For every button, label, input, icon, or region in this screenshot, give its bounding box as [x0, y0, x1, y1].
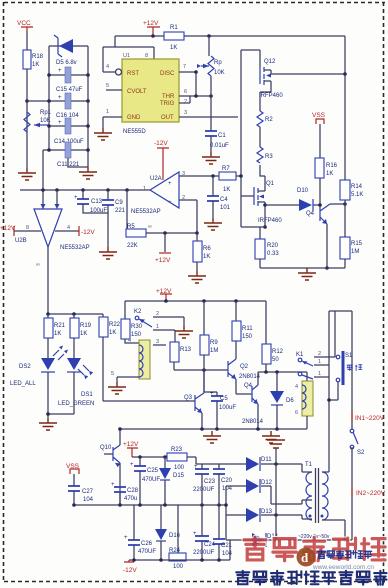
ground K2 coil: [108, 382, 126, 394]
capacitor C21 104: [213, 505, 233, 560]
diode D16: [155, 505, 181, 560]
resistor R2: [257, 111, 273, 127]
svg-text:-12V: -12V: [123, 567, 137, 574]
watermark red training text: [244, 537, 385, 560]
svg-text:10K: 10K: [214, 70, 225, 76]
switch S1 reset: [327, 351, 362, 402]
svg-text:1K: 1K: [326, 171, 333, 177]
wire ground rail right: [260, 267, 345, 269]
resistor R15 1M: [340, 237, 363, 268]
svg-text:IN2~220V: IN2~220V: [356, 490, 386, 497]
svg-text:5: 5: [111, 371, 114, 377]
svg-text:C26: C26: [141, 541, 153, 547]
junction: [25, 99, 29, 103]
capacitor C24 2200UF: [193, 505, 216, 560]
wire main left rail: [26, 69, 28, 168]
svg-text:Rp: Rp: [214, 60, 222, 66]
svg-text:IRFP460: IRFP460: [258, 218, 282, 224]
U2B input arrows: [41, 204, 60, 209]
capacitor C27 104: [68, 486, 94, 505]
svg-text:R24: R24: [169, 548, 181, 554]
svg-text:100: 100: [173, 564, 184, 570]
svg-text:1K: 1K: [203, 254, 210, 260]
power +12V top: [143, 20, 160, 36]
svg-text:C24: C24: [204, 542, 216, 548]
svg-text:Q4: Q4: [306, 211, 315, 217]
svg-text:1K: 1K: [80, 331, 87, 337]
pin THR: [179, 89, 211, 96]
svg-text:0.01uF: 0.01uF: [210, 143, 229, 149]
svg-text:-12V: -12V: [154, 140, 168, 147]
ground C1: [202, 152, 220, 164]
junction: [343, 72, 347, 76]
svg-text:C27: C27: [82, 489, 94, 495]
svg-text:D15: D15: [173, 473, 185, 479]
wire U2A pin2: [179, 200, 197, 233]
junction: [200, 427, 204, 431]
svg-text:+: +: [124, 535, 128, 541]
svg-text:+12V: +12V: [155, 257, 171, 264]
junction: [47, 73, 51, 77]
wire R3 to Q1 drain: [260, 165, 265, 191]
ground right rail: [298, 268, 316, 280]
svg-text:R13: R13: [180, 347, 192, 353]
svg-text:470u: 470u: [124, 496, 137, 502]
svg-text:+12V: +12V: [143, 20, 159, 27]
resistor R22 1K: [99, 314, 121, 401]
junction: [138, 455, 142, 459]
pin GND: [103, 109, 122, 128]
watermark slogan: [236, 571, 386, 585]
resistor R14 5.1K: [340, 180, 363, 237]
svg-text:1K: 1K: [109, 330, 116, 336]
svg-text:R20: R20: [267, 243, 279, 249]
svg-text:OUT: OUT: [161, 115, 174, 121]
transistor Q12 IRFP460 mosfet: [259, 59, 283, 111]
svg-text:VCC: VCC: [17, 20, 31, 27]
svg-text:DS1: DS1: [81, 392, 93, 398]
transistor Q3 2N8014: [184, 370, 204, 429]
junction: [274, 513, 278, 517]
junction: [164, 299, 168, 303]
wire C11 bottom: [68, 158, 88, 167]
svg-text:TRIG: TRIG: [160, 101, 175, 107]
ground LEDs: [39, 418, 57, 430]
svg-text:7: 7: [183, 64, 186, 70]
svg-text:470UF: 470UF: [142, 477, 160, 483]
svg-text:R6: R6: [203, 246, 211, 252]
power +12V mid: [155, 233, 171, 264]
svg-text:4: 4: [67, 225, 70, 231]
resistor R21 1K: [44, 314, 66, 358]
svg-text:S1: S1: [345, 353, 353, 359]
svg-text:∞: ∞: [36, 262, 40, 268]
svg-text:1: 1: [318, 371, 321, 377]
transistor Q4: [306, 204, 345, 268]
svg-text:+: +: [111, 482, 115, 488]
svg-text:d: d: [301, 550, 309, 565]
resistor R20 0.33: [255, 239, 279, 268]
svg-text:R21: R21: [54, 323, 66, 329]
svg-text:D10: D10: [297, 188, 309, 194]
capacitor C15 47uF: [56, 67, 83, 93]
svg-text:+: +: [168, 181, 172, 187]
svg-text:R1: R1: [170, 25, 178, 31]
connector IN2-220V: [352, 487, 386, 497]
svg-text:6: 6: [295, 410, 298, 416]
svg-text:Q10: Q10: [100, 445, 112, 451]
resistor R13: [170, 330, 192, 370]
svg-text:CVOLT: CVOLT: [127, 89, 147, 95]
svg-text:THR: THR: [162, 94, 175, 100]
diode D12: [246, 479, 273, 493]
junction: [194, 70, 198, 74]
junction: [151, 34, 155, 38]
svg-text:T1: T1: [305, 462, 313, 468]
svg-text:4: 4: [295, 384, 298, 390]
resistor R19 1K: [70, 314, 92, 358]
wire bridge center column: [275, 464, 277, 540]
svg-text:8: 8: [145, 53, 148, 59]
svg-text:Q2: Q2: [240, 364, 249, 370]
svg-text:RST: RST: [127, 71, 139, 77]
junction: [47, 124, 51, 128]
resistor R5 22K: [126, 190, 197, 249]
svg-text:R22: R22: [109, 322, 121, 328]
wire gate column bottom: [241, 227, 265, 239]
svg-text:C23: C23: [204, 479, 216, 485]
svg-text:C20: C20: [221, 478, 233, 484]
junction: [264, 370, 268, 374]
pin RST with bubble: [103, 64, 122, 75]
svg-text:+: +: [58, 68, 62, 74]
svg-text:NE555D: NE555D: [123, 129, 146, 135]
wire rung 5: [43, 149, 88, 151]
resistor R30 150: [121, 301, 143, 339]
power VCC: [17, 20, 33, 50]
svg-text:150: 150: [131, 332, 142, 338]
svg-text:22K: 22K: [127, 243, 138, 249]
svg-text:1K: 1K: [223, 187, 230, 193]
svg-text:R15: R15: [351, 241, 363, 247]
op-amp U2B NE5532AP: [15, 209, 90, 268]
svg-text:5: 5: [106, 83, 109, 89]
svg-text:R16: R16: [326, 163, 338, 169]
ground R6: [188, 271, 206, 283]
wire DISC to THR: [195, 72, 197, 96]
svg-text:Q4: Q4: [244, 383, 253, 389]
resistor R11 150: [232, 301, 253, 359]
zener diode D5 6.8v: [54, 35, 77, 66]
resistor R16 1K: [315, 158, 338, 208]
wire bottom rail: [129, 540, 230, 560]
svg-text:8: 8: [26, 225, 29, 231]
diode D6: [270, 372, 294, 429]
svg-text:C5: C5: [220, 396, 228, 402]
resistor R18: [23, 50, 44, 69]
resistor R24 100: [169, 505, 186, 570]
svg-text:D13: D13: [261, 509, 273, 515]
junction: [47, 99, 51, 103]
wire cap-stack left rail: [48, 46, 50, 150]
watermark logo: [297, 548, 316, 567]
svg-text:Rp1: Rp1: [40, 110, 52, 116]
wire rung 3: [49, 100, 88, 102]
IC U1 NE555D: [122, 53, 179, 135]
op-amp U2A NE5532AP: [131, 171, 185, 215]
svg-text:1: 1: [318, 359, 321, 365]
svg-text:0.33: 0.33: [267, 251, 279, 257]
svg-text:K2: K2: [134, 309, 142, 315]
svg-text:6: 6: [184, 89, 187, 95]
svg-text:1K: 1K: [54, 331, 61, 337]
wire U2B input stub: [56, 190, 58, 205]
svg-text:221: 221: [115, 208, 126, 214]
svg-text:C25: C25: [147, 468, 159, 474]
wire Q10 collector feed: [119, 429, 121, 445]
svg-text:4: 4: [128, 338, 131, 344]
svg-text:3: 3: [156, 339, 159, 345]
ground K2 pin2: [175, 317, 193, 338]
ground diode bridge center: [267, 440, 285, 464]
diode D15: [159, 457, 185, 505]
svg-text:+: +: [58, 120, 62, 126]
svg-text:LED_GREEN: LED_GREEN: [58, 401, 94, 407]
transistor Q10: [100, 445, 121, 505]
svg-text:1M: 1M: [210, 348, 218, 354]
svg-text:Q3: Q3: [184, 395, 193, 401]
wire U2B output down: [47, 247, 49, 314]
wire down to U2B input: [42, 150, 44, 209]
svg-text:5.1K: 5.1K: [351, 192, 363, 198]
pin DISC: [179, 64, 196, 72]
watermark eeworld name: [318, 550, 372, 558]
resistor R12 50: [262, 301, 284, 372]
svg-text:R14: R14: [351, 184, 363, 190]
power +12V Q10: [123, 441, 139, 457]
wire diode row 2: [226, 486, 312, 504]
wire rung to cap stack: [27, 100, 49, 102]
junction: [195, 231, 199, 235]
svg-text:2N8014: 2N8014: [242, 419, 264, 425]
svg-text:1: 1: [106, 109, 109, 115]
power +12V U2B pin8: [0, 225, 41, 236]
junction: [118, 427, 122, 431]
junction: [343, 538, 347, 542]
capacitor C13 100uF: [74, 190, 108, 214]
power VSS bottom: [66, 463, 80, 486]
svg-text:D16: D16: [169, 533, 181, 539]
capacitor C16 104: [56, 93, 79, 119]
pin CVOLT: [106, 83, 122, 90]
wire diode row 3: [226, 515, 312, 519]
svg-text:R2: R2: [265, 117, 273, 123]
resistor R7: [219, 166, 236, 193]
resistor R9 1M: [200, 301, 218, 392]
wire R2 to R3: [259, 127, 261, 147]
wire output bus y190: [20, 189, 150, 191]
svg-text:∞: ∞: [148, 224, 152, 230]
wire diode row 4: [226, 539, 352, 541]
svg-text:104: 104: [222, 486, 233, 492]
power +12V bottom section: [156, 288, 172, 301]
wire gate drive column: [241, 50, 260, 227]
junction: [46, 312, 50, 316]
svg-text:U2B: U2B: [15, 238, 27, 244]
svg-text:DISC: DISC: [160, 71, 175, 77]
junction: [274, 462, 278, 466]
svg-text:www.eeworld.com.cn: www.eeworld.com.cn: [312, 564, 374, 571]
svg-text:R19: R19: [80, 323, 92, 329]
switch S2: [350, 429, 365, 540]
svg-text:104: 104: [222, 551, 233, 557]
svg-text:+: +: [193, 531, 197, 537]
capacitor C11 221: [57, 142, 80, 168]
svg-text:1: 1: [143, 186, 146, 192]
svg-text:-12V: -12V: [81, 229, 95, 236]
svg-text:C9: C9: [115, 200, 123, 206]
wire emitter ground rail: [120, 428, 307, 430]
svg-text:2: 2: [156, 311, 159, 317]
diode D10: [265, 188, 320, 211]
power -12V: [123, 560, 137, 574]
ground 555: [94, 128, 112, 140]
wire RST loop: [103, 36, 154, 72]
transistor Q4 2N8014 lower: [242, 372, 264, 429]
wire bottom +12V bus: [125, 300, 266, 302]
LED DS1: [58, 358, 94, 407]
svg-text:C4: C4: [220, 197, 228, 203]
svg-text:R30: R30: [131, 324, 143, 330]
capacitor C20 104: [213, 464, 233, 505]
svg-text:R11: R11: [242, 326, 253, 332]
svg-text:50: 50: [272, 357, 279, 363]
svg-text:IN1~220V: IN1~220V: [355, 415, 385, 422]
svg-text:150: 150: [242, 334, 253, 340]
svg-text:R18: R18: [32, 54, 44, 60]
svg-text:2200UF: 2200UF: [193, 550, 215, 556]
junction: [132, 558, 136, 562]
capacitor C28 470u: [111, 482, 139, 505]
wire R12 to K1 coil: [258, 371, 307, 373]
resistor R6 1K: [193, 233, 211, 271]
ground cap stack: [79, 167, 97, 179]
svg-text:NE5532AP: NE5532AP: [60, 245, 90, 251]
svg-text:1M: 1M: [351, 249, 359, 255]
capacitor C14 100uF: [54, 118, 84, 145]
svg-text:Q1: Q1: [266, 181, 275, 187]
ground C9/C13: [99, 247, 117, 259]
svg-text:DS2: DS2: [19, 364, 31, 370]
svg-text:2: 2: [318, 351, 321, 357]
svg-text:NE5532AP: NE5532AP: [131, 209, 161, 215]
junction: [47, 148, 51, 152]
connector IN1-220V: [352, 412, 385, 422]
junction: [239, 174, 243, 178]
wire Rp bottom to C1: [210, 76, 212, 131]
capacitor C4 101: [207, 174, 231, 218]
capacitor C25 470UF: [130, 457, 160, 505]
svg-text:4: 4: [106, 64, 109, 70]
svg-text:+: +: [74, 195, 78, 201]
potentiometer Rp 10K: [197, 36, 225, 76]
svg-text:D6: D6: [286, 398, 294, 404]
svg-text:100uF: 100uF: [219, 405, 236, 411]
junction: [46, 412, 50, 416]
wire column joining rows: [225, 486, 227, 540]
relay K1 contacts: [296, 351, 335, 379]
resistor R3: [257, 147, 273, 163]
power -12V for U2A: [154, 140, 169, 180]
junction: [41, 188, 45, 192]
svg-text:100uF: 100uF: [90, 208, 107, 214]
junction: [72, 503, 76, 507]
svg-text:D12: D12: [261, 480, 273, 486]
svg-text:C15 47uF: C15 47uF: [56, 87, 83, 93]
potentiometer Rp1: [24, 110, 52, 132]
svg-text:D11: D11: [261, 457, 272, 463]
wire supply rail y457: [132, 457, 196, 464]
svg-text:470UF: 470UF: [138, 549, 156, 555]
svg-text:S2: S2: [357, 450, 365, 456]
svg-text:R7: R7: [222, 166, 230, 172]
svg-text:U1: U1: [123, 53, 130, 59]
svg-text:1: 1: [156, 324, 159, 330]
svg-text:104: 104: [83, 497, 94, 503]
svg-text:101: 101: [220, 205, 231, 211]
svg-text:IRFP460: IRFP460: [259, 93, 283, 99]
junction: [343, 202, 347, 206]
power VSS right: [312, 112, 326, 158]
wire top bus: [115, 35, 345, 37]
svg-text:+: +: [130, 462, 134, 468]
junction: [224, 503, 228, 507]
capacitor C26 470UF: [124, 505, 156, 560]
svg-text:+12V: +12V: [123, 441, 139, 448]
svg-text:C1: C1: [218, 133, 226, 139]
pin TRIG: [179, 96, 190, 105]
power -12V U2B pin4: [55, 226, 95, 236]
capacitor C5 100uF: [204, 391, 236, 429]
transistor Q2 2N8014: [228, 359, 261, 394]
wire rung 4: [49, 125, 88, 127]
wire U2A pin3: [179, 175, 219, 177]
diode D13: [246, 508, 273, 522]
wire R13 to Q2 base: [174, 369, 228, 371]
svg-text:R23: R23: [171, 447, 183, 453]
svg-text:2200UF: 2200UF: [193, 487, 215, 493]
svg-text:LED_ALL: LED_ALL: [10, 381, 36, 387]
wire T1 right winding top: [322, 471, 329, 473]
svg-text:U2A: U2A: [150, 176, 162, 182]
svg-text:R5: R5: [127, 224, 135, 230]
capacitor C1 0.01uF: [205, 131, 229, 152]
svg-text:100: 100: [174, 465, 185, 471]
wire LED cathodes to ground: [48, 372, 74, 418]
diode D14: [252, 533, 279, 547]
wire T1 right winding bottom: [322, 520, 345, 540]
svg-text:+: +: [210, 391, 214, 397]
svg-text:C13: C13: [91, 199, 103, 205]
wire rung 2: [49, 74, 88, 76]
svg-text:C21: C21: [221, 543, 233, 549]
wire cap-stack right rail: [87, 46, 89, 167]
resistor R1: [164, 25, 184, 51]
svg-text:C28: C28: [127, 488, 139, 494]
capacitor C9 221: [102, 190, 126, 247]
transistor Q1 IRFP460 mosfet: [241, 181, 282, 227]
wire right rail: [344, 36, 346, 180]
